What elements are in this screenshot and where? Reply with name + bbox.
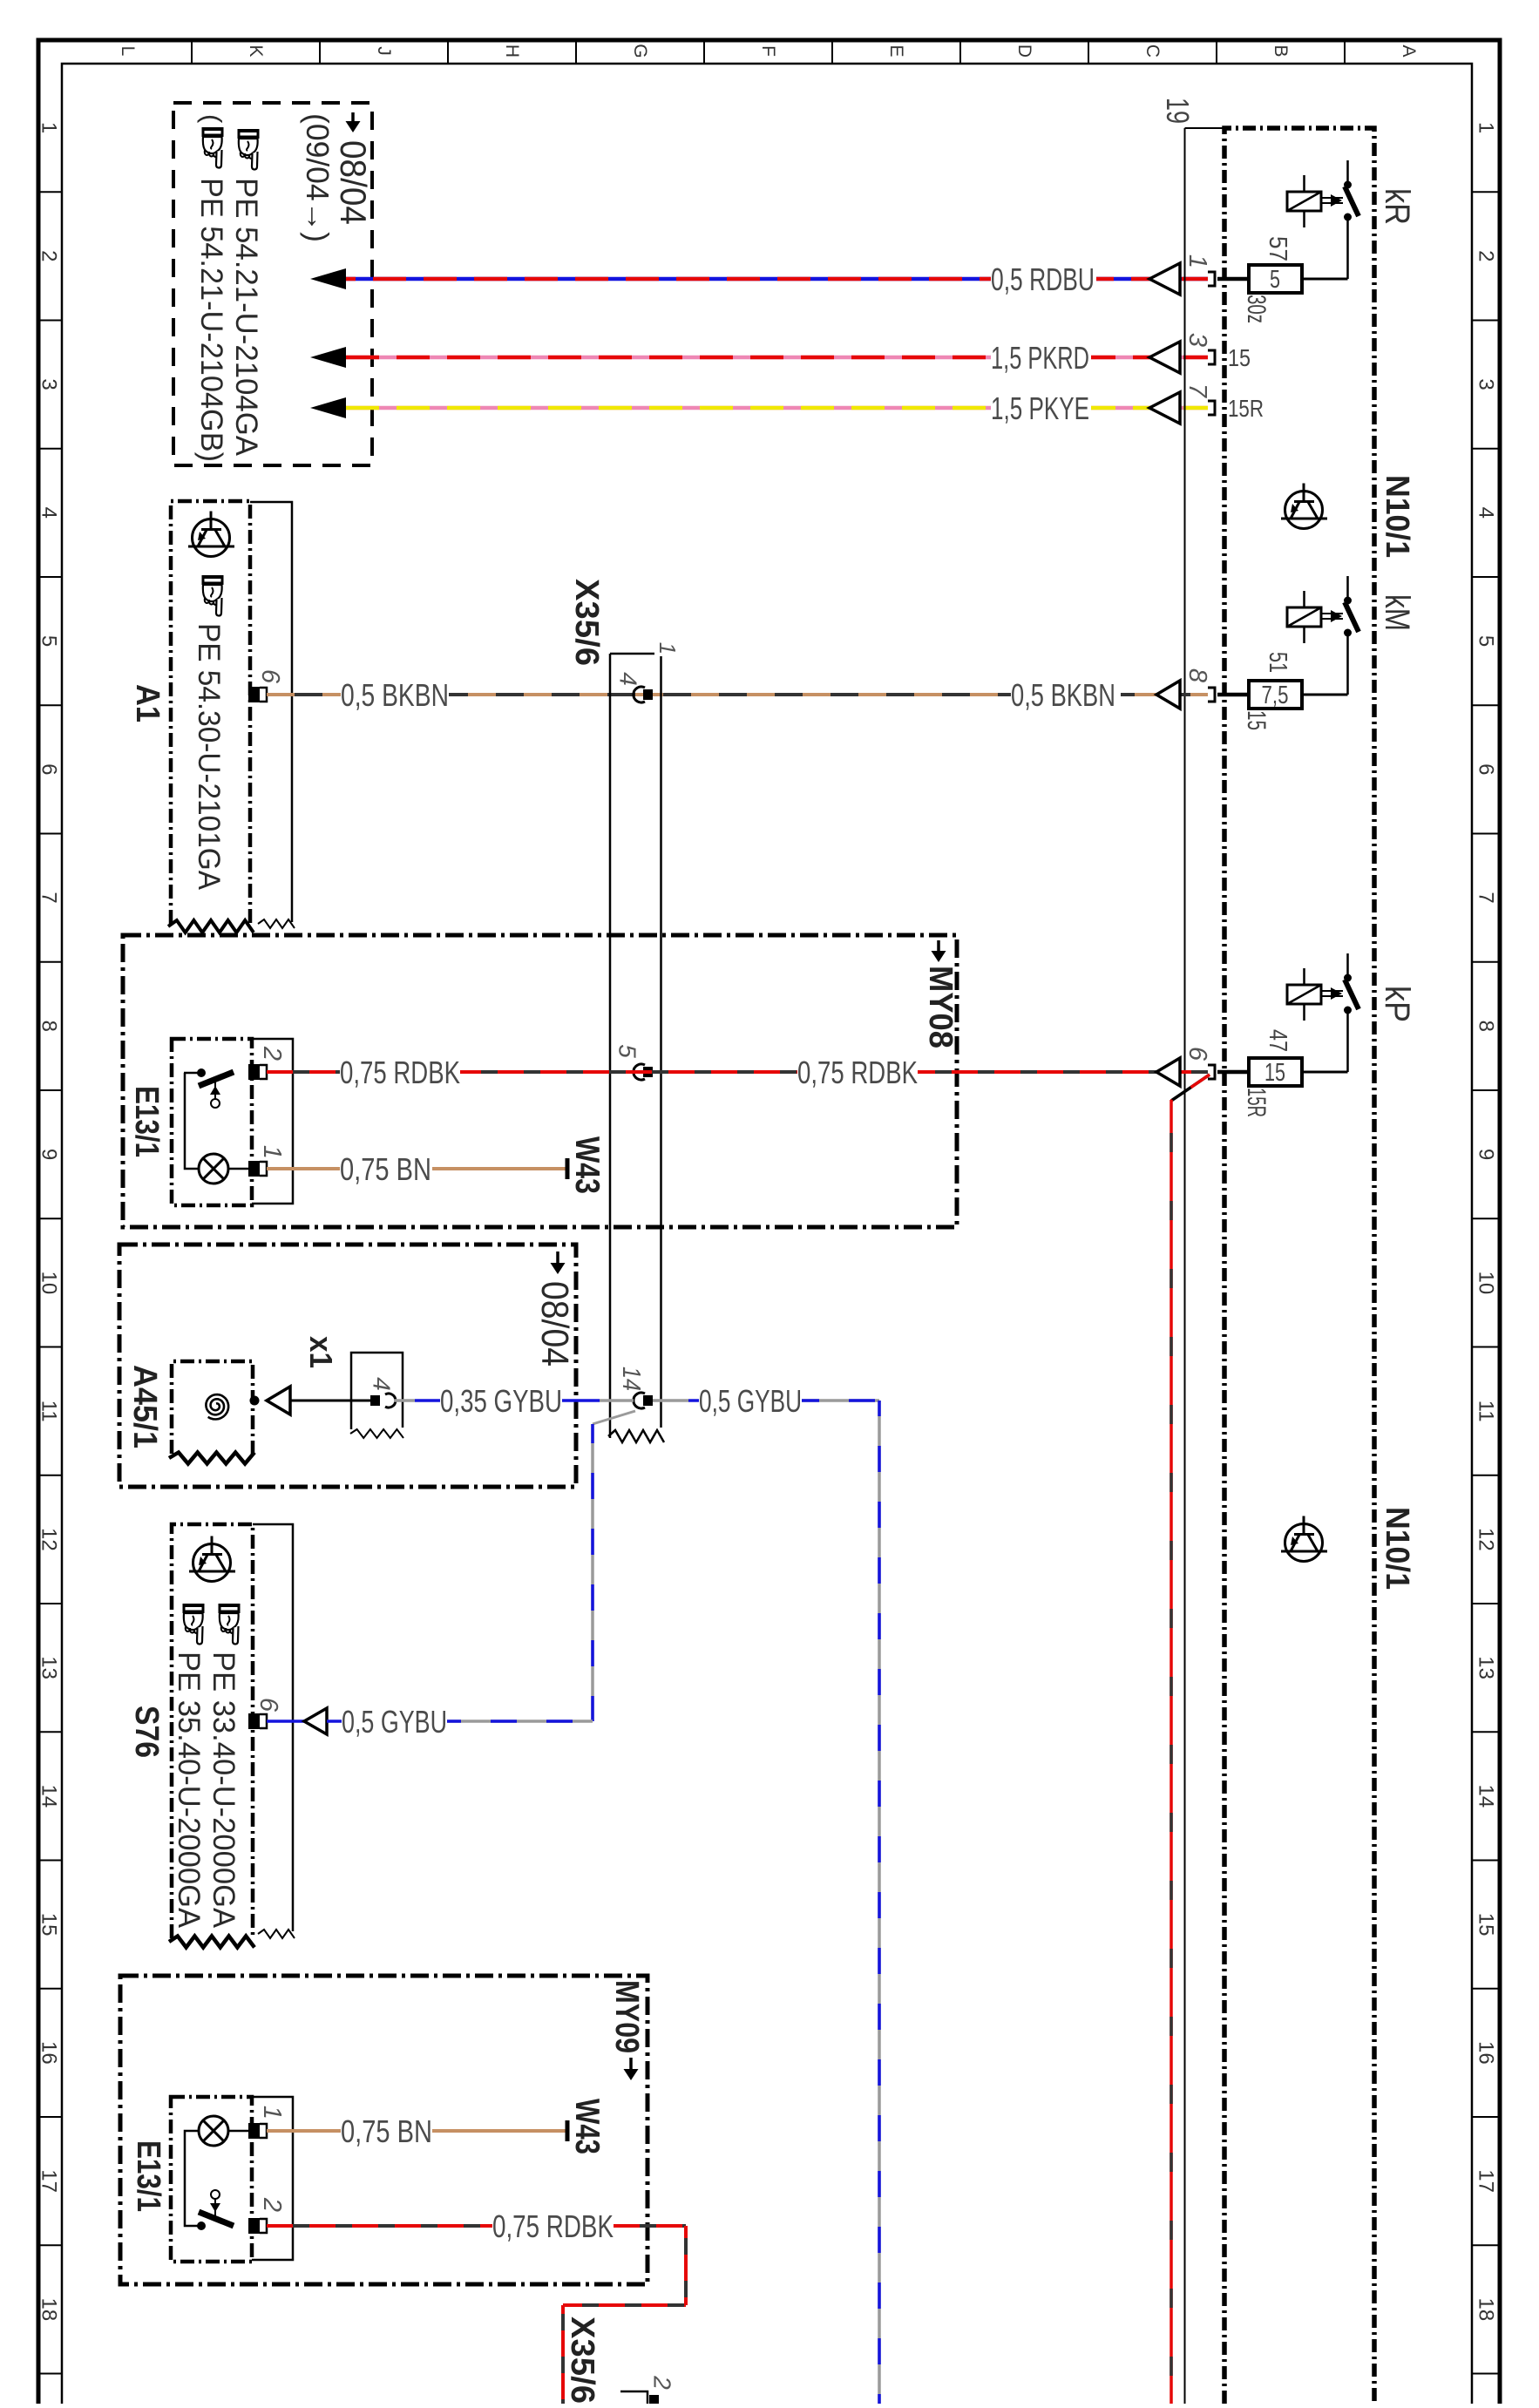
relay kP coil [1287, 985, 1321, 1004]
svg-text:1: 1 [1183, 254, 1211, 268]
svg-text:11: 11 [37, 1401, 61, 1422]
switch-lamp unit E13/1 box lower [171, 2097, 252, 2262]
svg-text:H: H [502, 44, 522, 58]
A45 arrow 08/04 [556, 1251, 559, 1265]
pin 1 clip N10/1 [1208, 272, 1215, 286]
svg-text:12: 12 [37, 1528, 61, 1551]
svg-text:14: 14 [1475, 1784, 1498, 1808]
wire pin6 to fuse [1217, 1070, 1249, 1075]
svg-text:16: 16 [1475, 2041, 1498, 2065]
wire RDBK lower corner [684, 2226, 688, 2305]
ground terminal W43 bar lower [566, 2120, 570, 2141]
pin 7 clip N10/1 [1208, 401, 1215, 415]
relay kM coil [1287, 607, 1321, 627]
A1 hand icon [202, 575, 224, 616]
component A45/1 box [172, 1361, 253, 1454]
svg-text:4: 4 [1475, 507, 1498, 519]
X35/6 pin 4 clip [634, 687, 645, 702]
X35/6 pin 14 clip [634, 1393, 645, 1408]
svg-text:N10/1: N10/1 [1379, 475, 1415, 558]
svg-text:1: 1 [258, 2106, 286, 2120]
pin 3 clip N10/1 [1208, 350, 1215, 364]
connector x1 frame [351, 1353, 403, 1429]
svg-text:G: G [630, 44, 650, 58]
wire 1,5 PKRD right segment [1091, 356, 1208, 360]
MY08 arrow [937, 940, 940, 953]
hand icon left [202, 127, 224, 168]
pin 6 clip N10/1 [1208, 1065, 1215, 1079]
relay kP contact lever [1345, 980, 1359, 1009]
x1 pin 4 clip [370, 1395, 380, 1406]
svg-text:6: 6 [254, 1698, 282, 1713]
svg-text:6: 6 [37, 763, 61, 775]
svg-text:4: 4 [615, 672, 642, 686]
svg-text:A: A [1399, 44, 1419, 57]
svg-text:N10/1: N10/1 [1379, 1507, 1415, 1590]
svg-text:08/04: 08/04 [533, 1281, 576, 1367]
S76 hand icon right [219, 1604, 241, 1645]
connector X35/6 pin 2 frame [620, 2391, 647, 2404]
svg-text:0,5 GYBU: 0,5 GYBU [342, 1704, 447, 1740]
X35/6 pin 5 clip [634, 1064, 645, 1080]
option box 08/04 A45/1 [119, 1245, 576, 1487]
svg-text:47: 47 [1264, 1029, 1292, 1052]
top ruler letter cells [191, 40, 193, 64]
svg-text:0,5 RDBU: 0,5 RDBU [991, 261, 1095, 297]
svg-text:5: 5 [1270, 266, 1280, 294]
svg-text:0,5 BKBN: 0,5 BKBN [1011, 677, 1115, 713]
svg-text:7: 7 [37, 892, 61, 903]
svg-text:4: 4 [369, 1377, 396, 1391]
option box MY08 [123, 935, 957, 1227]
svg-text:14: 14 [37, 1784, 61, 1808]
E13/1 lower lamp [199, 2116, 228, 2146]
svg-text:E: E [886, 44, 906, 57]
E13/1 pin 2 [248, 1064, 260, 1080]
wire 1,5 PKYE right segment [1091, 406, 1208, 410]
svg-text:C: C [1142, 44, 1163, 58]
svg-text:15R: 15R [1228, 395, 1264, 422]
relay kP linkage [1321, 990, 1343, 992]
wire 0,5 BKBN right [1121, 693, 1208, 696]
svg-text:0,75 RDBK: 0,75 RDBK [492, 2208, 614, 2244]
svg-text:0,75 BN: 0,75 BN [340, 1151, 431, 1187]
svg-text:MY08: MY08 [922, 966, 959, 1048]
svg-text:kM: kM [1378, 594, 1416, 631]
wire 0,5 BKBN left [267, 693, 341, 696]
svg-text:18: 18 [1475, 2297, 1498, 2321]
svg-text:9: 9 [1475, 1149, 1498, 1160]
relay kM linkage [1321, 613, 1343, 614]
dashed box PE references [173, 103, 372, 465]
svg-text:4: 4 [37, 507, 61, 519]
A45/1 torn edge [169, 1453, 254, 1464]
wire 0,35 GYBU right [562, 1399, 600, 1402]
relay kR contact lever [1345, 187, 1359, 216]
svg-text:6: 6 [1475, 763, 1498, 775]
svg-text:0,5 GYBU: 0,5 GYBU [699, 1383, 802, 1419]
svg-text:x1: x1 [303, 1336, 339, 1368]
wire 0,75 RDBK lower right [614, 2224, 686, 2228]
svg-text:10: 10 [37, 1271, 61, 1294]
control unit N10/1 box [1224, 128, 1374, 2404]
svg-text:PE 54.21-U-2104GB): PE 54.21-U-2104GB) [194, 178, 228, 462]
svg-text:0,5 BKBN: 0,5 BKBN [341, 677, 449, 713]
svg-text:K: K [246, 44, 266, 57]
svg-text:16: 16 [37, 2041, 61, 2065]
fuse 7,5 [1249, 681, 1302, 709]
svg-text:13: 13 [37, 1656, 61, 1679]
svg-text:PE 33.40-U-2000GA: PE 33.40-U-2000GA [207, 1652, 241, 1929]
svg-text:PE 54.21-U-2104GA: PE 54.21-U-2104GA [229, 178, 263, 457]
svg-text:MY09: MY09 [608, 1980, 645, 2053]
E13/1 lower switch contact [197, 2221, 206, 2230]
relay kR contact wires [1346, 160, 1349, 181]
svg-text:E13/1: E13/1 [128, 1086, 165, 1157]
svg-text:11: 11 [1475, 1401, 1498, 1422]
svg-text:W43: W43 [568, 2099, 606, 2154]
wire A45 to x1 [290, 1400, 371, 1402]
svg-text:E13/1: E13/1 [130, 2140, 166, 2212]
relay kM contact wires [1346, 576, 1349, 597]
wire RDBK vertical drop [1170, 1100, 1173, 2404]
A1 pin strip [250, 502, 292, 922]
option box MY09 [120, 1976, 647, 2284]
svg-text:5: 5 [37, 635, 61, 647]
wire 0,75 BN left [267, 1167, 340, 1170]
svg-text:5: 5 [1475, 635, 1498, 647]
svg-text:F: F [758, 45, 778, 57]
arrow A45/1 [267, 1387, 290, 1414]
E13/1 lower pin 2 [248, 2218, 260, 2234]
svg-text:2: 2 [649, 2375, 676, 2390]
E13/1 pin 1 [248, 1161, 260, 1177]
svg-text:1: 1 [654, 642, 681, 655]
svg-text:(09/04→): (09/04→) [300, 113, 336, 242]
MY09 arrow [629, 2058, 633, 2071]
wire 0,5 GYBU S76 right [447, 1720, 593, 1723]
svg-text:6: 6 [256, 669, 284, 684]
wire 0,75 RDBK mid [460, 1070, 797, 1074]
relay kP contact wires [1346, 953, 1349, 974]
svg-text:15: 15 [1242, 710, 1271, 730]
E13/1 lower internal wire [185, 2131, 199, 2226]
connector arrow pin7 [1149, 392, 1180, 424]
svg-text:15: 15 [37, 1913, 61, 1937]
relay kR linkage [1321, 197, 1343, 199]
relay kM contact lever [1345, 602, 1359, 632]
svg-text:19: 19 [1160, 98, 1196, 124]
svg-text:17: 17 [1475, 2169, 1498, 2193]
wire 0,75 RDBK left [267, 1070, 340, 1074]
wire GYBU branch vertical [591, 1424, 594, 1721]
electronic icon N10/1 lower [1281, 1516, 1327, 1562]
ground terminal W43 bar [566, 1158, 570, 1179]
A45/1 clockspring icon [206, 1394, 228, 1419]
wire 19 vertical bus [1184, 128, 1186, 2404]
svg-text:2: 2 [1475, 250, 1498, 261]
wire pin1 to fuse [1217, 277, 1249, 281]
svg-text:12: 12 [1475, 1528, 1498, 1551]
svg-text:15: 15 [1228, 344, 1251, 371]
wire 0,75 RDBK lower [267, 2224, 492, 2228]
svg-text:PE 35.40-U-2000GA: PE 35.40-U-2000GA [172, 1652, 206, 1929]
wire pin8 to fuse [1217, 693, 1249, 697]
svg-text:15R: 15R [1242, 1088, 1271, 1117]
svg-text:3: 3 [37, 378, 61, 390]
svg-text:0,75 RDBK: 0,75 RDBK [340, 1055, 460, 1090]
connector X35/6 rails [609, 654, 612, 1438]
component A1 box [171, 501, 250, 924]
svg-text:1: 1 [37, 122, 61, 133]
E13/1 switch contact [184, 1072, 198, 1075]
branch RDBK diagonal [1171, 1075, 1210, 1101]
component S76 box [172, 1524, 253, 1938]
svg-text:0,35 GYBU: 0,35 GYBU [440, 1383, 562, 1419]
A1 pin 6 [248, 687, 260, 702]
wire 0,5 RDBU left segment [310, 268, 346, 289]
svg-text:3: 3 [1183, 333, 1211, 347]
E13/1 lamp [199, 1154, 228, 1184]
svg-text:D: D [1014, 44, 1034, 58]
svg-text:kR: kR [1378, 188, 1416, 225]
wire 0,75 BN lower [267, 2129, 341, 2133]
switch-lamp unit E13/1 box [172, 1039, 252, 1205]
svg-text:9: 9 [37, 1149, 61, 1160]
svg-text:13: 13 [1475, 1656, 1498, 1679]
wire 0,5 RDBU right segment [1096, 277, 1208, 281]
svg-text:7: 7 [1475, 892, 1498, 903]
svg-text:8: 8 [37, 1021, 61, 1032]
svg-text:X35/6: X35/6 [564, 2316, 600, 2404]
svg-text:J: J [374, 46, 394, 56]
E13/1 lower switch actuator [214, 2199, 216, 2217]
svg-text:18: 18 [37, 2297, 61, 2321]
svg-text:30z: 30z [1242, 295, 1271, 323]
svg-text:5: 5 [614, 1044, 641, 1058]
pin 8 clip N10/1 [1208, 688, 1215, 702]
E13/1 lower pin 1 [248, 2123, 260, 2139]
svg-text:57: 57 [1264, 236, 1292, 261]
A1 torn edge [168, 920, 254, 933]
svg-text:8: 8 [1475, 1021, 1498, 1032]
hand icon right [238, 129, 260, 170]
svg-text:B: B [1271, 44, 1291, 57]
svg-text:A1: A1 [129, 684, 166, 722]
wire 0,5 GYBU vertical to bottom [878, 1401, 881, 2404]
svg-text:1,5 PKRD: 1,5 PKRD [991, 340, 1089, 376]
wire 0,75 RDBK right [918, 1070, 1208, 1074]
electronic icon N10/1 upper [1281, 484, 1327, 529]
wire 0,5 GYBU S76 [267, 1720, 304, 1723]
connector X35/6 torn edge [608, 1430, 664, 1442]
connector arrow pin1 [1149, 263, 1180, 295]
svg-text:7,5: 7,5 [1262, 682, 1289, 709]
S76 torn edge [169, 1937, 254, 1948]
svg-text:14: 14 [617, 1367, 645, 1391]
E13/1 pin strip [252, 1039, 293, 1204]
svg-text:8: 8 [1183, 668, 1211, 682]
svg-text:PE 54.30-U-2101GA: PE 54.30-U-2101GA [192, 623, 226, 891]
connector arrow pin3 [1149, 342, 1180, 373]
S76 pin strip [253, 1524, 293, 1931]
S76 electronic icon [189, 1536, 235, 1582]
svg-text:7: 7 [1183, 383, 1211, 399]
svg-text:08/04: 08/04 [333, 140, 374, 225]
connector arrow pin8 [1156, 681, 1180, 709]
wire 0,5 BKBN mid [449, 693, 1011, 696]
svg-text:A45/1: A45/1 [126, 1365, 163, 1448]
A1 electronic icon [188, 512, 234, 557]
svg-text:2: 2 [37, 250, 61, 261]
E13/1 lower pin strip [252, 2097, 293, 2260]
svg-text:2: 2 [258, 2197, 286, 2212]
svg-text:kP: kP [1378, 986, 1416, 1022]
svg-text:17: 17 [37, 2169, 61, 2193]
svg-text:1,5 PKYE: 1,5 PKYE [991, 390, 1089, 426]
svg-text:1: 1 [1475, 122, 1498, 133]
wire 0,75 BN right [432, 1167, 566, 1170]
svg-text:(: ( [197, 114, 227, 124]
fuse 15 [1249, 1058, 1302, 1086]
svg-text:15: 15 [1475, 1913, 1498, 1937]
side ruler number cells [37, 191, 62, 193]
relay kR coil [1287, 192, 1321, 211]
E13/1 switch actuator [214, 1081, 216, 1099]
svg-text:2: 2 [258, 1046, 286, 1061]
svg-text:X35/6: X35/6 [568, 579, 605, 666]
E13/1 internal wire [185, 1073, 199, 1169]
svg-text:S76: S76 [128, 1706, 165, 1758]
wire 0,35 GYBU [394, 1399, 415, 1402]
svg-text:1: 1 [258, 1145, 286, 1159]
svg-text:W43: W43 [568, 1136, 606, 1194]
fuse 5 [1249, 265, 1302, 293]
svg-text:10: 10 [1475, 1271, 1498, 1294]
S76 pin 6 [248, 1713, 260, 1729]
wire 1,5 PKYE left segment [310, 397, 346, 418]
arrow down 08/04 [351, 112, 355, 123]
svg-text:15: 15 [1264, 1059, 1285, 1087]
wire 1,5 PKRD left segment [310, 347, 346, 368]
arrow S76 [304, 1708, 327, 1734]
svg-text:L: L [118, 46, 138, 57]
branch GYBU to S76 diagonal [593, 1411, 635, 1424]
S76 hand icon left [183, 1604, 205, 1645]
A45/1 junction dot [250, 1396, 260, 1406]
svg-text:51: 51 [1264, 652, 1292, 673]
wire 0,5 GYBU to corner [653, 1399, 688, 1402]
svg-text:0,75 RDBK: 0,75 RDBK [797, 1055, 918, 1090]
connector arrow pin6 [1156, 1058, 1180, 1086]
svg-text:0,75 BN: 0,75 BN [341, 2113, 432, 2149]
svg-text:6: 6 [1183, 1047, 1211, 1062]
svg-text:3: 3 [1475, 378, 1498, 390]
